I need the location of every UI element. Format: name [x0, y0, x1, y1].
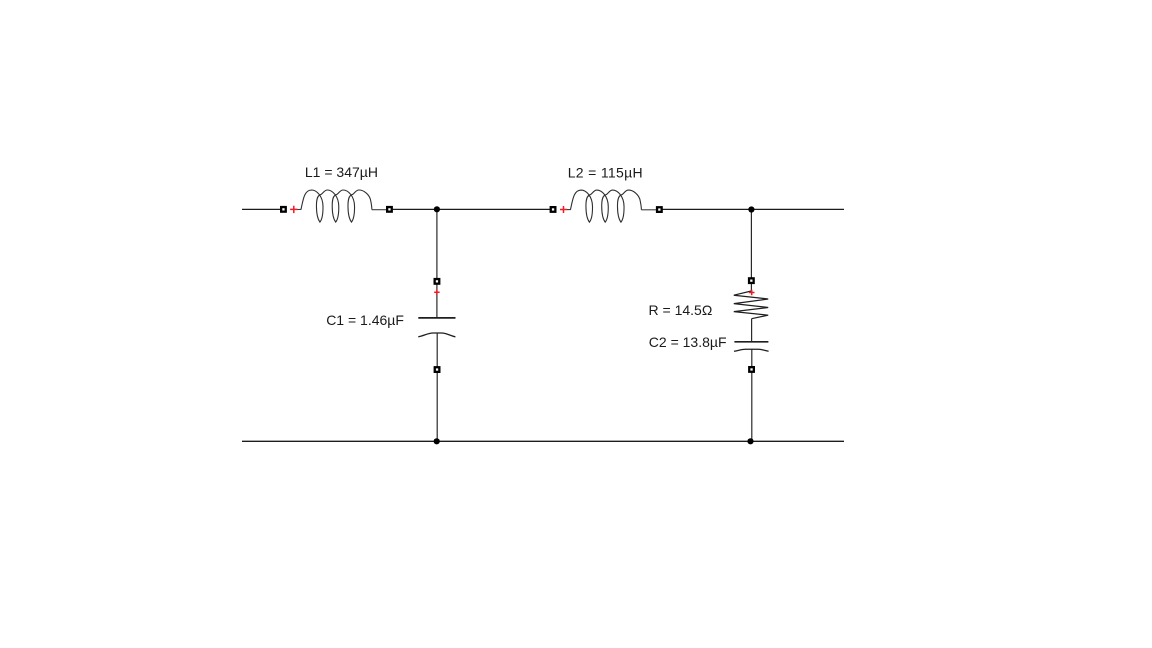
svg-text:L2 = 115µH: L2 = 115µH — [568, 164, 643, 180]
svg-text:R = 14.5Ω: R = 14.5Ω — [649, 302, 713, 318]
svg-text:C1 = 1.46µF: C1 = 1.46µF — [326, 312, 404, 328]
svg-text:C2 = 13.8µF: C2 = 13.8µF — [649, 334, 727, 350]
svg-text:L1 = 347µH: L1 = 347µH — [305, 164, 378, 180]
